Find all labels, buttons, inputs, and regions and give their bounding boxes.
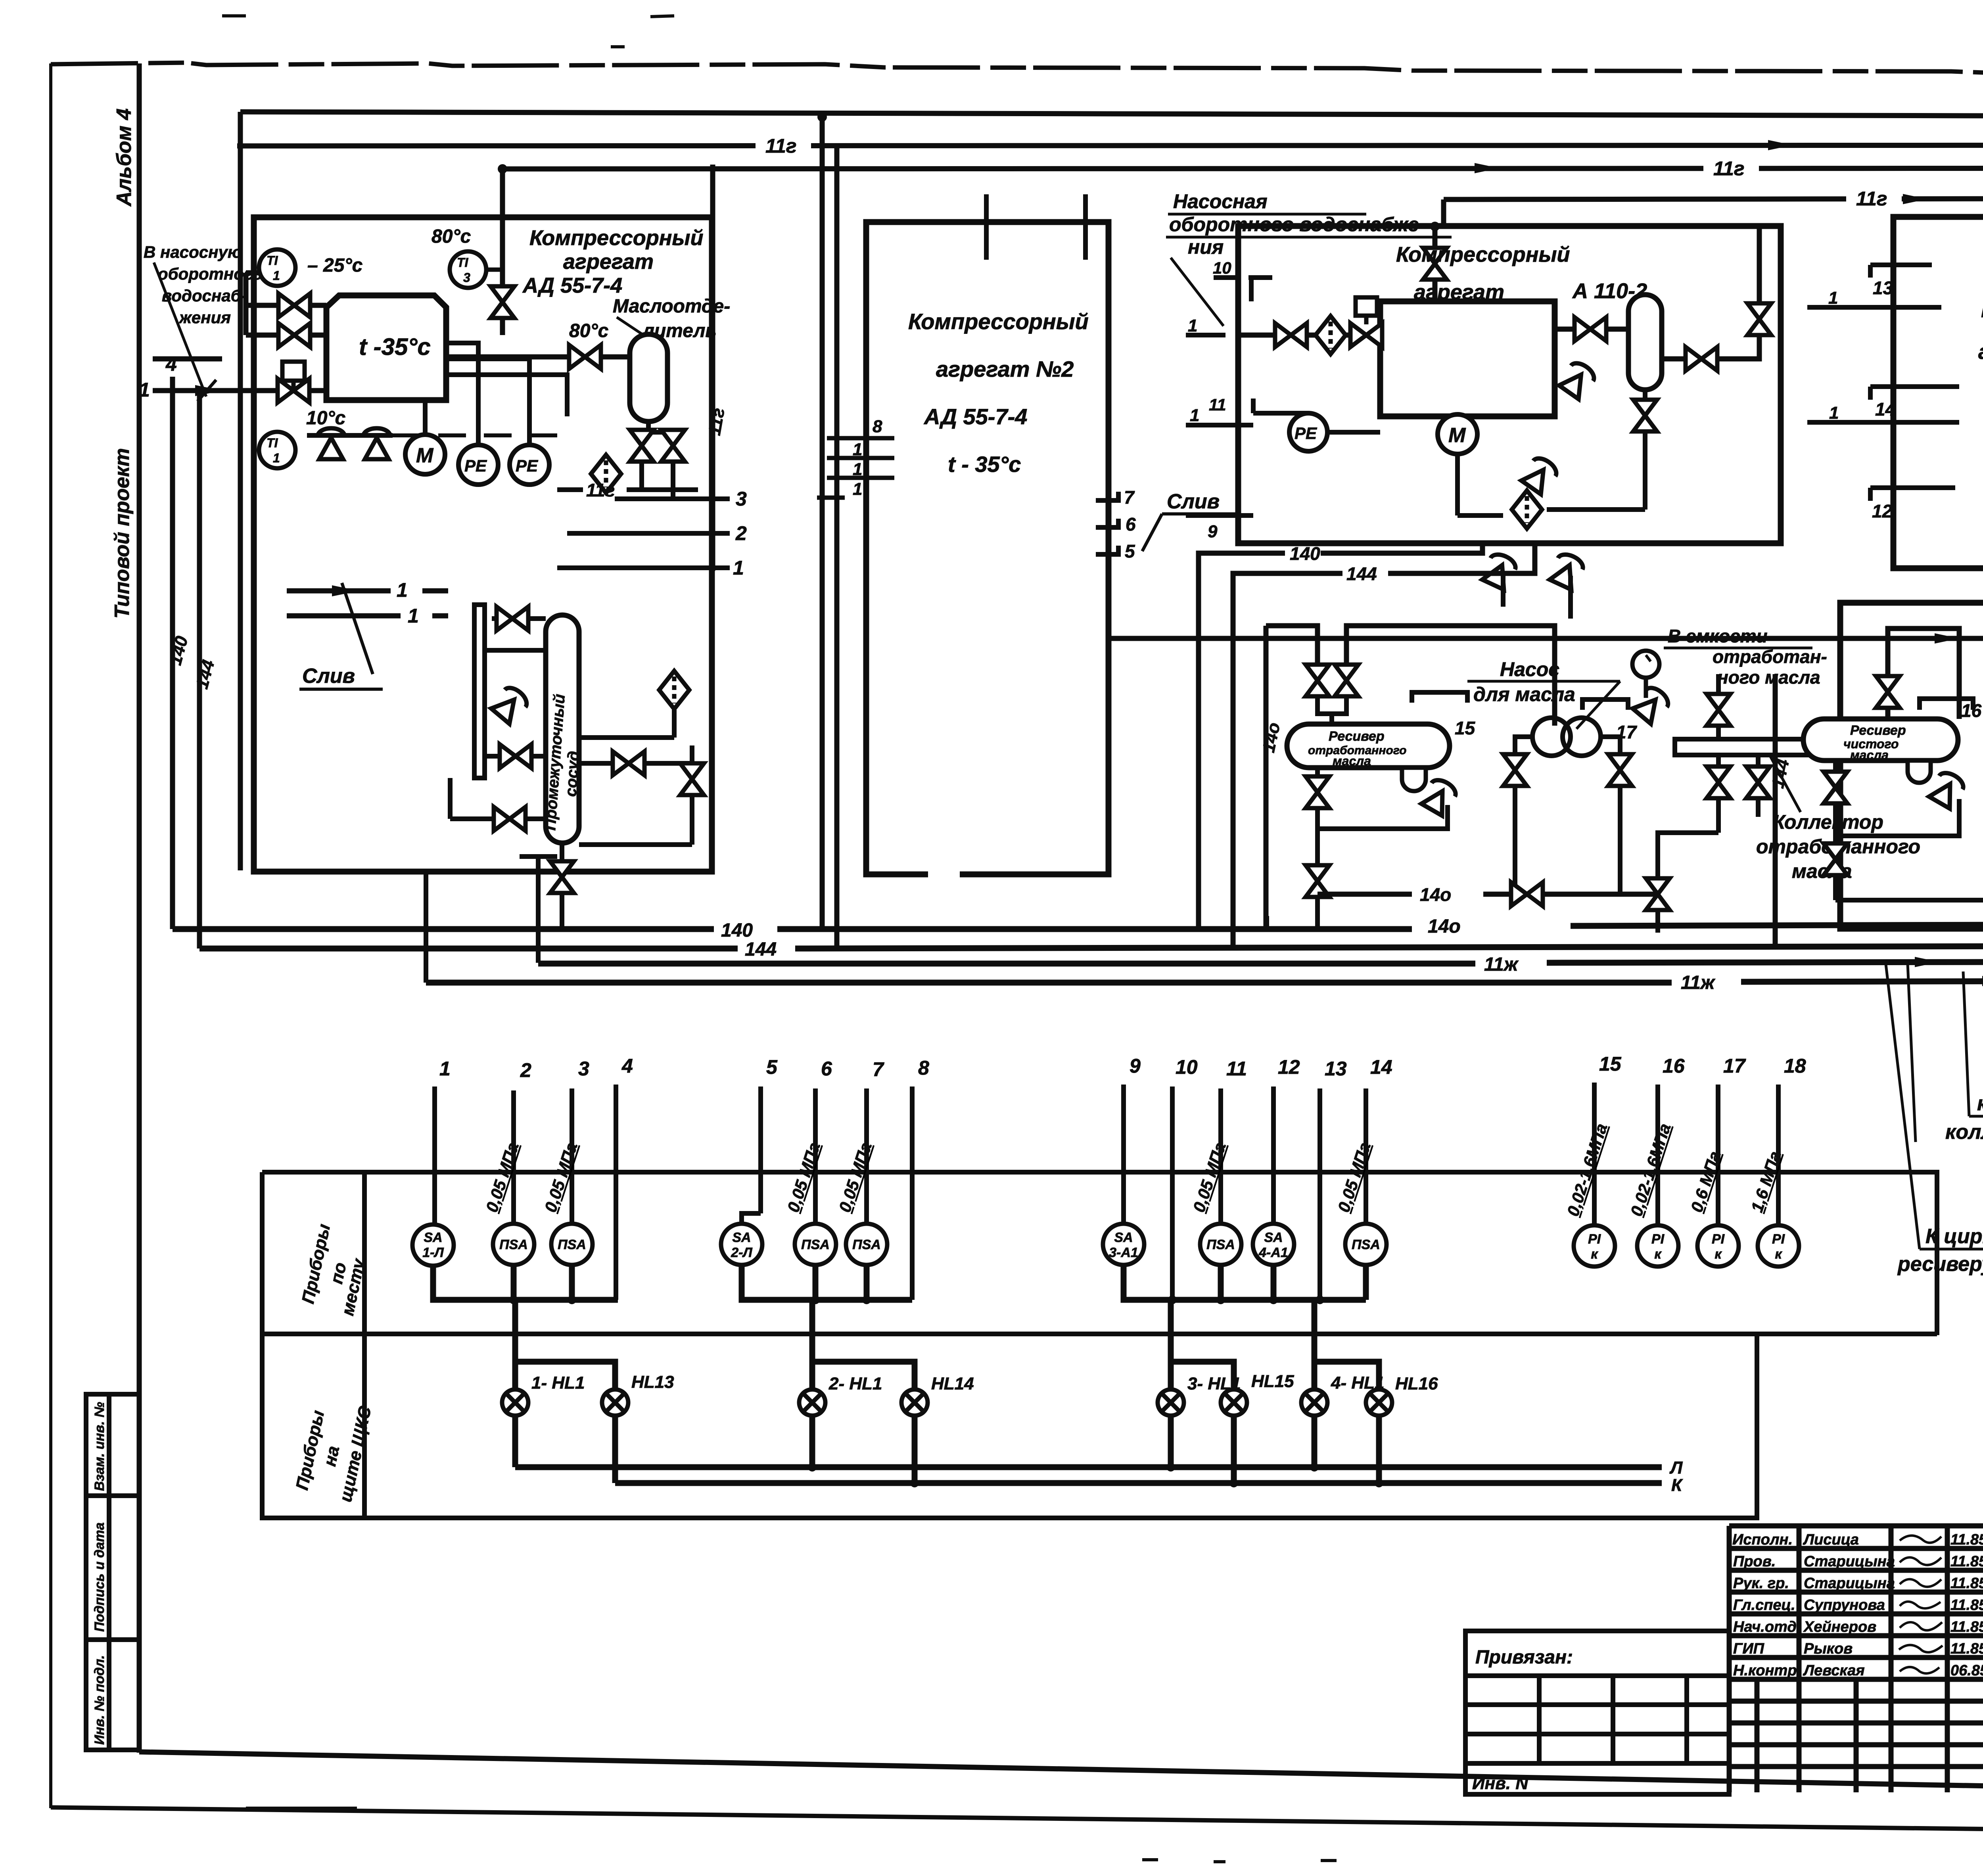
svg-text:5: 5 (766, 1056, 778, 1078)
line 11zh 1 (538, 961, 1475, 967)
valve mid4 (1306, 865, 1329, 897)
pipe 11g line 5 (237, 145, 1983, 146)
pipe 12 line (1108, 636, 1983, 641)
line 11zh 2 (426, 980, 1672, 986)
svg-text:1: 1 (1190, 406, 1199, 425)
svg-text:к: к (1591, 1247, 1598, 1262)
svg-text:t - 35°с: t - 35°с (948, 452, 1021, 477)
junction dots (498, 112, 1983, 231)
svg-text:9: 9 (1130, 1055, 1141, 1077)
svg-text:жения: жения (178, 308, 231, 327)
bottom scan marks (246, 1808, 1337, 1862)
svg-text:SA: SA (732, 1230, 751, 1245)
instrument TI-3 (432, 226, 502, 288)
svg-text:80°с: 80°с (569, 320, 608, 341)
pipe to oil separator (446, 355, 630, 360)
text Maslootdelitel (569, 296, 730, 341)
svg-text:SA: SA (1114, 1230, 1133, 1245)
svg-text:АД 55-7-4: АД 55-7-4 (522, 274, 622, 297)
valve to separator2 (1575, 317, 1606, 341)
svg-text:Насосная: Насосная (1173, 190, 1268, 213)
lamp HL1-2 (799, 1389, 825, 1416)
valve pump mid right (1608, 754, 1632, 786)
svg-text:М: М (416, 444, 434, 467)
pipe 6 arrowheads (1475, 162, 1983, 174)
text Nasosnaya (1169, 190, 1426, 258)
pipe 11g inner label line (557, 487, 698, 492)
svg-text:11ж: 11ж (1681, 972, 1716, 993)
svg-text:Пров.: Пров. (1733, 1553, 1776, 1570)
svg-text:11.85: 11.85 (1950, 1619, 1983, 1635)
lamp HL1-3 (1158, 1389, 1184, 1416)
valve rc1 (1824, 772, 1847, 803)
check on vessel left (490, 684, 530, 724)
svg-text:Компрессорный: Компрессорный (908, 309, 1089, 334)
oil separator vessel (630, 334, 667, 422)
stub 2 (567, 531, 730, 536)
stub 1 (557, 565, 730, 570)
instrument PE1 (446, 343, 498, 485)
svg-text:11.85: 11.85 (1950, 1597, 1983, 1613)
svg-text:Подпись и дата: Подпись и дата (92, 1522, 107, 1632)
svg-text:ГИП: ГИП (1733, 1640, 1764, 1657)
lamp HL1-4 (1301, 1389, 1327, 1416)
svg-text:12: 12 (1872, 501, 1893, 521)
sheet top scan dashes (222, 16, 674, 47)
vertical valve right (680, 763, 704, 795)
TI1 connector (246, 270, 262, 276)
svg-text:РI: РI (1588, 1232, 1601, 1247)
svg-text:РЕ: РЕ (1295, 424, 1318, 443)
long riser x2073 (820, 113, 825, 929)
filter diamond F1 (591, 455, 621, 493)
svg-text:к распределительному: к распределительному (1977, 1092, 1983, 1115)
box4 left ticks (1807, 265, 1959, 501)
instrument TI-1b (259, 408, 345, 468)
leader sliv1 (342, 583, 373, 674)
staff names (1732, 1531, 1983, 1679)
svg-text:для масла: для масла (1473, 683, 1575, 705)
svg-text:ПSA: ПSA (499, 1237, 528, 1252)
svg-text:НL14: НL14 (931, 1374, 974, 1393)
motor M2 (1438, 414, 1477, 454)
oil pump mid (1532, 718, 1601, 756)
svg-text:6: 6 (1126, 514, 1136, 535)
collector drops (1658, 755, 1758, 928)
svg-text:Инв. N: Инв. N (1472, 1774, 1528, 1793)
svg-text:16: 16 (1663, 1055, 1685, 1077)
riser 144 rotated label (1773, 674, 1778, 949)
valve on drop 4180 (1646, 878, 1670, 910)
white gaps for pipe labels (756, 135, 1983, 209)
valve above collector (1707, 694, 1730, 726)
pipe 5 arrowheads (1768, 139, 1983, 151)
svg-text:140: 140 (721, 920, 753, 941)
valve V1 (278, 293, 310, 317)
top bus pipe (240, 112, 1983, 117)
svg-text:ния: ния (1188, 236, 1224, 258)
svg-text:1: 1 (273, 268, 280, 283)
collector bar (1675, 739, 1812, 755)
svg-text:– 25°с: – 25°с (307, 255, 362, 276)
svg-text:SA: SA (1264, 1230, 1283, 1245)
svg-text:АД 55-7-4: АД 55-7-4 (923, 404, 1027, 429)
svg-text:6: 6 (821, 1058, 832, 1080)
svg-text:14: 14 (1370, 1056, 1392, 1078)
svg-text:Л: Л (1669, 1458, 1683, 1477)
slash tick on inlet (198, 380, 216, 401)
compressor body rect (1380, 301, 1555, 416)
svg-text:Альбом 4: Альбом 4 (113, 108, 136, 207)
instrument PE2 (446, 359, 567, 485)
svg-text:4- НL1: 4- НL1 (1331, 1373, 1384, 1393)
valve box3 top (1423, 248, 1447, 280)
stub 9 sliv (1186, 513, 1253, 518)
svg-text:3: 3 (736, 488, 747, 510)
svg-text:коллектору: коллектору (1945, 1121, 1983, 1144)
row2 feeds and lamps (515, 1300, 1379, 1389)
gauge instrument (1632, 651, 1659, 698)
svg-text:1: 1 (853, 460, 862, 479)
svg-text:Старицына: Старицына (1804, 1553, 1895, 1570)
svg-text:Компрессорный: Компрессорный (1981, 298, 1983, 322)
svg-text:t -35°с: t -35°с (359, 333, 431, 360)
box cluster 3 (1238, 226, 1781, 543)
svg-text:144: 144 (1346, 563, 1377, 584)
intermediate vessel (546, 615, 579, 843)
box compressor 2 (866, 222, 1108, 874)
valve on loop (1876, 676, 1900, 708)
svg-text:водоснаб-: водоснаб- (162, 286, 247, 305)
valve under sep2 (1633, 400, 1657, 431)
valve collector left (1707, 766, 1730, 798)
svg-text:1: 1 (733, 557, 744, 579)
valve V6 under vessel (630, 430, 654, 462)
funnel under vessel (1402, 768, 1426, 791)
separator2 right pipe (1662, 226, 1759, 359)
svg-text:1: 1 (853, 479, 862, 499)
svg-text:Типовой проект: Типовой проект (111, 448, 134, 619)
text V emkosti otrabotannogo (1668, 626, 1827, 688)
line 140 bundle (173, 926, 714, 932)
svg-text:3-А1: 3-А1 (1109, 1245, 1138, 1260)
long riser x2110 (834, 146, 840, 949)
coil bar (474, 605, 485, 778)
svg-text:Н.контр.: Н.контр. (1733, 1662, 1801, 1679)
check angles cluster3 (1558, 359, 1598, 400)
motor M (405, 400, 445, 474)
valve collector right (1746, 766, 1770, 798)
pipe 11g line 7 (1444, 198, 1983, 199)
text Kollektor (1756, 811, 1920, 882)
svg-text:4-А1: 4-А1 (1258, 1245, 1288, 1260)
mid cluster bottom line (1318, 892, 1658, 897)
svg-text:1-Л: 1-Л (422, 1245, 444, 1260)
svg-text:144: 144 (745, 939, 777, 960)
riser 11g right of box1 (710, 165, 715, 571)
svg-text:18: 18 (1784, 1055, 1806, 1077)
valve box3 inlet (1275, 323, 1307, 347)
t-35 evaporator box (326, 295, 446, 400)
svg-text:Взам. инв. №: Взам. инв. № (92, 1402, 107, 1491)
svg-text:3- НL1: 3- НL1 (1187, 1374, 1241, 1393)
valve V5 (569, 345, 601, 369)
riser 144 left (197, 393, 202, 949)
control valve box3 (1356, 297, 1377, 324)
svg-text:11.85: 11.85 (1950, 1553, 1983, 1570)
frame outer left line (49, 63, 52, 1808)
svg-text:1- НL1: 1- НL1 (531, 1373, 585, 1393)
svg-text:НL13: НL13 (631, 1372, 674, 1392)
svg-text:7: 7 (873, 1058, 884, 1081)
lamp HL14 (901, 1389, 928, 1416)
vessel bottom drop (560, 843, 564, 929)
svg-text:к: к (1715, 1247, 1722, 1262)
svg-text:3: 3 (578, 1058, 589, 1080)
stubs crossing top (984, 194, 989, 260)
svg-text:к: к (1775, 1247, 1782, 1262)
svg-text:10: 10 (1176, 1056, 1198, 1078)
svg-text:агрегат: агрегат (563, 250, 654, 274)
svg-text:Привязан:: Привязан: (1475, 1647, 1573, 1668)
check right cluster (1928, 769, 1967, 809)
svg-text:Исполн.: Исполн. (1732, 1531, 1793, 1548)
svg-text:К циркуляционному: К циркуляционному (1925, 1225, 1983, 1248)
vessel bottom tip (646, 422, 651, 432)
box compressor unit 1 (254, 217, 712, 872)
junction ticks on bundle (1267, 916, 1658, 933)
funnel under vessel right (1908, 761, 1931, 783)
left inlet line 2065 (450, 778, 546, 819)
used oil receiver vessel (1287, 724, 1450, 768)
text Kompr agregat AD55 (522, 226, 704, 297)
svg-text:агрегат А 110-2: агрегат А 110-2 (1978, 340, 1983, 364)
connect to vessel top (1318, 696, 1346, 724)
svg-text:8: 8 (918, 1057, 929, 1079)
valve rc2 (1824, 843, 1847, 875)
svg-text:Ресивер: Ресивер (1329, 729, 1385, 744)
enclosure corner line (426, 857, 557, 983)
svg-text:Нач.отд.: Нач.отд. (1733, 1619, 1801, 1635)
signatures squiggles (1899, 1536, 1943, 1674)
svg-text:масла: масла (1333, 754, 1371, 768)
bus line K (615, 1480, 1662, 1486)
check valve C1 (318, 428, 345, 459)
instrument TI-1 (259, 249, 362, 286)
valve right of vessel (613, 751, 644, 775)
text nasos dlya masla mid (1473, 658, 1575, 705)
left drop of vessel (1318, 768, 1448, 929)
svg-text:11ж: 11ж (1484, 954, 1519, 975)
check pair line (307, 433, 393, 438)
stem numbers (439, 1053, 1806, 1081)
svg-text:Хейнеров: Хейнеров (1803, 1619, 1876, 1635)
svg-text:15: 15 (1455, 718, 1476, 738)
svg-text:Насос: Насос (1500, 658, 1559, 680)
leader maslootdelitel (617, 317, 652, 341)
svg-text:11.85: 11.85 (1950, 1640, 1983, 1657)
svg-text:Рыков: Рыков (1804, 1640, 1853, 1657)
svg-text:РЕ: РЕ (516, 456, 539, 475)
svg-text:В емкости: В емкости (1668, 626, 1768, 646)
svg-text:Левская: Левская (1803, 1662, 1865, 1679)
check under gauge (1631, 684, 1672, 724)
svg-text:агрегат №2: агрегат №2 (936, 356, 1074, 381)
svg-text:оборотного водоснабже-: оборотного водоснабже- (1169, 213, 1426, 236)
valve mid2 (1335, 665, 1358, 696)
svg-text:1: 1 (1829, 403, 1839, 423)
inlet pipe y770 (246, 303, 326, 308)
risers from bundle to valves (1266, 626, 1555, 929)
pipe to separator2 (1555, 327, 1628, 332)
box right oil cluster (1840, 603, 1983, 929)
instrument bubbles row1 (412, 1224, 1799, 1267)
text kompr agregat A110-2 (1396, 243, 1647, 304)
svg-text:М: М (1448, 424, 1466, 447)
bracket 15 (1412, 692, 1467, 703)
svg-text:2- НL1: 2- НL1 (828, 1374, 882, 1393)
valve on 2065 (494, 807, 525, 831)
lower stubs 1 with arrow (287, 591, 448, 616)
internal connect lines cluster3 (1253, 399, 1645, 619)
lamp HL16 (1366, 1389, 1392, 1416)
svg-text:ресиверу t -35°С: ресиверу t -35°С (1897, 1253, 1983, 1276)
svg-text:Лисица: Лисица (1803, 1531, 1859, 1548)
leader V nasosnuyu (154, 263, 206, 397)
svg-text:ПSA: ПSA (852, 1237, 881, 1252)
pipe 7 arrowhead (1903, 192, 1983, 204)
svg-text:Ресивер: Ресивер (1850, 723, 1906, 738)
svg-text:14о: 14о (1420, 884, 1451, 905)
svg-text:ПSA: ПSA (1206, 1237, 1235, 1252)
valve V2 (278, 323, 310, 347)
svg-text:11: 11 (1226, 1058, 1247, 1080)
drop lines below V6 V7 (642, 462, 673, 499)
svg-text:ТI: ТI (267, 253, 278, 268)
right edge stubs 7 6 5 (1096, 492, 1118, 554)
svg-text:НL16: НL16 (1395, 1374, 1438, 1393)
svg-text:1: 1 (439, 1058, 451, 1080)
riser 140 left (170, 377, 175, 929)
box compressor 4 (1893, 217, 1983, 568)
svg-text:РI: РI (1712, 1232, 1725, 1247)
svg-text:2: 2 (735, 522, 747, 544)
instrument PE3 (1253, 413, 1380, 451)
bus junction dots (808, 1463, 1383, 1487)
text kompr agregat N2 (908, 309, 1089, 477)
lamp HL15 (1221, 1389, 1247, 1416)
svg-text:4: 4 (165, 353, 177, 375)
lamp HL1-1 (502, 1389, 528, 1416)
inlet pipe y845 (246, 333, 326, 338)
svg-text:11г: 11г (586, 480, 615, 500)
140 z-segment (1199, 543, 1482, 929)
inlet pipe y985 (153, 388, 326, 393)
text V nasosnuyu (144, 243, 263, 327)
svg-text:15: 15 (1599, 1053, 1622, 1075)
svg-text:Маслоотде-: Маслоотде- (613, 296, 730, 317)
table outline (262, 1172, 1937, 1335)
svg-text:9: 9 (1208, 522, 1218, 541)
line 144 bundle (199, 946, 738, 952)
svg-text:сосуд: сосуд (562, 750, 583, 797)
svg-text:Старицына: Старицына (1804, 1575, 1895, 1592)
stub 11/1 (1186, 423, 1253, 427)
left edge ticks of box2 (817, 438, 894, 498)
rotated pressure labels (482, 1121, 1785, 1218)
svg-text:Рук. гр.: Рук. гр. (1733, 1575, 1789, 1592)
svg-text:на: на (320, 1444, 343, 1468)
check valve C2 (363, 428, 390, 459)
riser pipe6 down to cluster1 (500, 169, 505, 335)
riser pipe7 stub (1441, 199, 1446, 226)
svg-text:к: к (1654, 1247, 1662, 1262)
svg-text:1: 1 (1188, 316, 1197, 335)
title block top (1729, 1523, 1983, 1529)
check angle mid (1420, 776, 1459, 816)
svg-text:К: К (1671, 1476, 1683, 1495)
separator2 bottom drop (1643, 390, 1647, 452)
valve under vessel (550, 861, 574, 893)
svg-text:Слив: Слив (302, 665, 355, 688)
group buses under bubbles (433, 1265, 1366, 1300)
filter diamond vessel (659, 671, 689, 709)
pipe 11g line 6 (502, 168, 1983, 169)
svg-text:РI: РI (1651, 1232, 1665, 1247)
svg-text:1: 1 (408, 605, 419, 627)
svg-text:2: 2 (520, 1059, 531, 1081)
bundle arrows 8 9 (1915, 955, 1983, 968)
svg-text:1: 1 (1828, 288, 1838, 308)
arrow on inlet 985 (195, 385, 222, 396)
text K raspredelitelnomu (1945, 1092, 1983, 1144)
svg-text:отработан-: отработан- (1713, 646, 1827, 667)
frame bottom thick (139, 1752, 1983, 1796)
svg-text:11г: 11г (1713, 157, 1745, 180)
svg-text:12: 12 (1278, 1056, 1300, 1078)
valve sep2 right (1686, 347, 1717, 371)
svg-text:Компрессорный: Компрессорный (529, 226, 704, 250)
svg-text:8: 8 (873, 417, 882, 436)
svg-text:11г: 11г (765, 135, 797, 157)
oil separator2 vessel (1628, 295, 1662, 390)
label 11g on pipe5 left (765, 127, 1983, 210)
svg-text:1: 1 (853, 440, 862, 459)
lamp HL13 (602, 1389, 628, 1416)
valve on vessel left mid (500, 744, 531, 768)
filter box3 inlet (1316, 316, 1346, 354)
svg-text:13: 13 (1325, 1058, 1347, 1080)
svg-text:2-Л: 2-Л (731, 1245, 752, 1260)
valve pump mid left (1503, 754, 1527, 786)
valve mid1 (1306, 665, 1329, 696)
svg-text:1: 1 (397, 579, 408, 601)
valve mid3 (1306, 776, 1329, 808)
text K tsirkulyatsionnomu resiveru bottom (1897, 1225, 1983, 1276)
valve V7 under vessel (661, 430, 685, 462)
filter under motor (1512, 491, 1542, 529)
svg-text:Инв. № подл.: Инв. № подл. (92, 1655, 107, 1745)
vessel drop split (642, 432, 673, 433)
svg-text:ТI: ТI (267, 436, 278, 450)
svg-text:06.85: 06.85 (1950, 1662, 1983, 1679)
svg-text:Слив: Слив (1167, 490, 1220, 513)
svg-text:1: 1 (139, 379, 150, 401)
svg-text:Гл.спец.: Гл.спец. (1733, 1597, 1795, 1613)
junction dots buses (509, 1295, 1324, 1304)
control valve V3 (282, 362, 305, 391)
svg-text:5: 5 (1125, 541, 1135, 561)
